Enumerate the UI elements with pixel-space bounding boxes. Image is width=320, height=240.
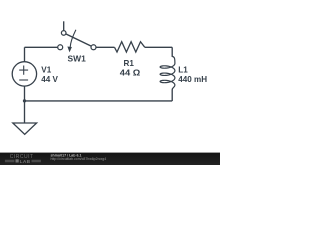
voltage source V1 — [12, 62, 58, 86]
L1 coil — [160, 56, 175, 89]
svg-text:LAB: LAB — [20, 159, 31, 165]
node junction dot — [23, 99, 26, 102]
SW1 actuation arrow arc — [70, 30, 76, 47]
svg-text:SW1: SW1 — [68, 54, 87, 63]
SW1 arrowhead — [67, 47, 72, 53]
V1 plus sign — [19, 66, 28, 75]
SW1 left terminal circle — [58, 45, 63, 50]
switch SW1 — [58, 21, 96, 63]
wire resistor to top-right corner — [145, 46, 172, 48]
inductor L1 — [160, 56, 207, 89]
wire switch to resistor — [94, 46, 115, 48]
wire top-left horizontal to switch — [25, 46, 59, 48]
resistor R1 — [115, 42, 145, 78]
V1 circle — [12, 62, 36, 86]
svg-text:http://circuitlab.com/c87hw6p2: http://circuitlab.com/c87hw6p2rcxg4 — [51, 157, 107, 161]
V1 minus sign — [19, 79, 28, 81]
ground — [13, 123, 37, 134]
svg-text:R1: R1 — [124, 59, 135, 68]
wire top-left vertical from V1 to corner — [24, 47, 26, 62]
R1 zigzag — [115, 42, 145, 52]
wire inductor to bottom-right corner — [171, 90, 173, 102]
SW1 right terminal circle — [91, 45, 96, 50]
svg-text:44 Ω: 44 Ω — [120, 68, 141, 77]
wire — [25, 47, 173, 122]
svg-text:V1: V1 — [41, 66, 51, 75]
wire V1 bottom to ground — [24, 86, 26, 123]
SW1 top terminal stub — [63, 21, 65, 31]
SW1 lever — [64, 33, 94, 47]
SW1 pivot terminal circle — [61, 31, 66, 36]
wire top-right vertical to inductor — [171, 47, 173, 57]
svg-text:L1: L1 — [178, 66, 188, 75]
svg-text:44 V: 44 V — [41, 75, 58, 84]
CircuitLab logo — [5, 154, 41, 165]
svg-text:440 mH: 440 mH — [178, 75, 207, 84]
wire bottom horizontal — [25, 100, 173, 102]
